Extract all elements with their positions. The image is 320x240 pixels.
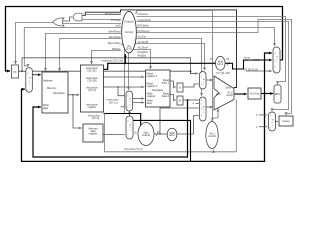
gate G1 OR (to PC write enable) <box>53 18 64 26</box>
svg-text:EPCWrite: EPCWrite <box>138 23 150 27</box>
wire ALUSrcA mux output to ALU <box>206 79 213 81</box>
svg-text:Outputs: Outputs <box>124 20 134 24</box>
register PC <box>12 65 19 78</box>
wire Instruction[20-16] branch to RegDst mux input 0 <box>118 87 125 96</box>
wire cause mux output to Cause register <box>276 121 278 123</box>
svg-text:[15–11]: [15–11] <box>109 100 118 104</box>
svg-text:register 2: register 2 <box>147 84 158 88</box>
svg-text:ALUOp: ALUOp <box>138 34 147 38</box>
svg-text:A: A <box>179 86 181 90</box>
node ALUOut loop junction <box>264 93 266 95</box>
wire Instruction[20-16] to read register 2 <box>104 86 145 88</box>
svg-text:IntCause: IntCause <box>138 12 149 16</box>
svg-text:Memory: Memory <box>47 86 57 90</box>
node sign extend output junction <box>159 133 161 135</box>
wire MemtoReg control down to mux <box>121 45 130 116</box>
svg-text:RegWrite: RegWrite <box>138 50 149 54</box>
wire MemWrite down to memory <box>60 39 122 72</box>
svg-text:control: control <box>208 134 216 138</box>
wire Instruction[15-11] to RegDst mux input 1 <box>121 106 125 108</box>
wire AND output to OR input <box>63 17 73 21</box>
svg-text:C0 00 00 00: C0 00 00 00 <box>244 67 259 71</box>
wire ALU control output to ALU <box>212 109 218 122</box>
svg-text:MemRead: MemRead <box>109 30 122 34</box>
wire PC mux output <box>280 59 282 61</box>
wire constant 4 stub to ALUSrcB input 1 <box>196 103 199 105</box>
register EPC <box>274 85 281 103</box>
svg-text:x: x <box>129 104 130 106</box>
wire CauseWrite wrap right to Cause register <box>136 20 292 116</box>
svg-text:Instruction [31–26]: Instruction [31–26] <box>102 58 124 62</box>
mux PCSource (4 way) <box>273 47 280 73</box>
svg-text:RegDst: RegDst <box>138 54 147 58</box>
register file Registers <box>146 70 171 107</box>
svg-text:MemData: MemData <box>53 91 65 95</box>
wire PCWriteCond to AND gate area <box>85 14 121 16</box>
svg-text:ALUSrcB: ALUSrcB <box>138 40 149 44</box>
wire PC node into ALUSrcA mux input 0 <box>191 71 198 73</box>
wire shift left 2 output to ALUSrcB input 3 <box>177 116 199 134</box>
svg-text:register: register <box>147 94 156 98</box>
ALU control unit <box>206 122 218 149</box>
wire ALUSrcA control down to mux <box>135 44 204 71</box>
svg-text:[15–0]: [15–0] <box>92 116 99 120</box>
wire memory data down to memory data register <box>73 95 82 128</box>
svg-text:x: x <box>276 62 277 64</box>
svg-text:B: B <box>179 99 181 103</box>
svg-text:Address: Address <box>43 78 53 82</box>
svg-text:x: x <box>272 125 273 127</box>
svg-text:IRWrite: IRWrite <box>112 47 121 51</box>
wire ALU result to ALUOut register <box>234 93 247 95</box>
register ALUOut <box>248 88 261 99</box>
svg-text:MemtoReg: MemtoReg <box>108 41 121 45</box>
mux MemtoReg (write data select) <box>126 116 133 139</box>
wire B register output to ALUSrcB mux input 0 <box>183 99 199 101</box>
wire Instruction[5-0] stub into ALU control <box>213 150 215 152</box>
wire IRWrite down to instruction register <box>92 51 122 65</box>
svg-text:Registers: Registers <box>152 88 164 92</box>
svg-text:CauseWrite: CauseWrite <box>138 18 152 22</box>
svg-text:u: u <box>29 80 30 82</box>
svg-text:PCWriteCond: PCWriteCond <box>105 12 121 16</box>
svg-text:[5–0]: [5–0] <box>126 47 132 51</box>
svg-text:Control: Control <box>125 30 134 34</box>
wire cause mux input 1 stub <box>259 126 267 128</box>
wire ALUOut loop down around bottom to IorD mux input 1 <box>22 89 265 161</box>
wire PC output to IorD mux input 0 and across to ALUSrcA junction <box>19 70 191 72</box>
wire ALUOut output to EPC (and loop junction) <box>261 93 273 95</box>
wire read data 1 to A register <box>170 81 176 87</box>
svg-text:extend: extend <box>142 133 150 137</box>
wire EPCWrite wrap right to EPC register <box>137 17 286 85</box>
svg-text:PC: PC <box>13 70 17 74</box>
register Cause <box>279 116 293 126</box>
wire MDR output to MemtoReg mux input 1 <box>103 134 125 136</box>
svg-text:register: register <box>88 105 97 109</box>
svg-text:Zero: Zero <box>226 85 232 89</box>
svg-text:MemWrite: MemWrite <box>109 35 121 39</box>
mux IorD (memory address select) <box>26 68 33 93</box>
svg-text:PC [31–28]: PC [31–28] <box>217 71 230 75</box>
svg-text:PCWrite: PCWrite <box>111 18 121 22</box>
wire PCWrite to AND gate input <box>83 19 122 21</box>
wire cause mux input 0 stub <box>259 114 267 116</box>
wire sign extend branch up to ALUSrcB input 2 <box>160 108 199 134</box>
wire jump shift output and PC[31-28] join to mux input <box>225 60 271 69</box>
node PC output junction <box>21 70 23 72</box>
wire B register loop down and around to memory write data <box>33 100 188 157</box>
node memory data junction <box>72 94 74 96</box>
wire RegDst mux output to write register <box>133 98 145 100</box>
node instruction 20-16 junction <box>117 86 119 88</box>
svg-text:Instruction [5–0]: Instruction [5–0] <box>124 147 143 151</box>
svg-text:register 1: register 1 <box>147 74 158 78</box>
svg-text:PCSource: PCSource <box>138 29 150 33</box>
svg-text:x: x <box>129 130 130 132</box>
wire IntCause wrap right side to cause mux select <box>136 22 288 112</box>
memory unit <box>42 72 68 113</box>
wire MemData output to instruction register <box>68 94 79 96</box>
pin bus width tick 26 <box>212 62 214 66</box>
wire IorD control down to mux <box>24 28 121 67</box>
gate G2 AND (PCWriteCond and Zero) <box>73 13 82 21</box>
register A <box>177 83 183 92</box>
svg-text:EPC: EPC <box>275 92 280 96</box>
shift left 2 unit (jump address) <box>216 56 226 70</box>
shift left 2 unit (branch offset) <box>167 128 177 140</box>
wire MemtoReg mux input 0 from ALUOut loop <box>133 120 190 161</box>
wire ALUSrcB mux output to ALU <box>206 106 213 108</box>
wire Instruction[25-0] jump bus to shift left 2 <box>104 63 216 69</box>
wire ALU result up to PC mux input 0 <box>265 53 272 94</box>
register MDR memory data register <box>83 124 103 142</box>
pin bus width tick 28 <box>227 62 229 66</box>
wire read data 2 to B register <box>170 95 176 101</box>
svg-text:[25–21]: [25–21] <box>88 68 97 72</box>
wire A register output to ALUSrcA mux input 1 <box>183 84 199 87</box>
wire Instruction[5-0] along bottom to ALU control area <box>105 100 237 152</box>
ALU <box>214 76 234 110</box>
svg-text:data: data <box>43 106 49 110</box>
mux RegDst (write register select) <box>126 91 133 111</box>
svg-text:x: x <box>203 112 204 114</box>
svg-text:Cause: Cause <box>282 119 290 123</box>
wire sign extend output to shift left 2 <box>154 133 167 135</box>
wire PC output up and across (upper PC run) <box>22 58 191 71</box>
svg-text:x: x <box>29 83 30 85</box>
svg-text:address [31-0]: address [31-0] <box>244 58 261 62</box>
wire OR output down to PC write enable <box>16 23 54 65</box>
wire PC input bus loop (mux output around top to PC) <box>6 7 283 72</box>
register IR instruction register <box>81 65 104 112</box>
svg-text:[15–0]: [15–0] <box>88 88 95 92</box>
svg-text:data 2: data 2 <box>162 94 170 98</box>
svg-text:left 2: left 2 <box>169 133 175 137</box>
svg-text:IorD: IorD <box>116 24 121 28</box>
node B output junction <box>187 99 189 101</box>
wire Instruction[25-21] to read register 1 <box>104 76 145 78</box>
control unit oval <box>122 11 137 53</box>
svg-text:ALUSrcA: ALUSrcA <box>138 45 149 49</box>
svg-text:register: register <box>89 132 98 136</box>
wire Instruction[15-0] down to sign extend <box>104 114 141 127</box>
wire Zero from ALU up and left to AND gate <box>83 10 237 88</box>
svg-text:ALUOut: ALUOut <box>250 92 260 96</box>
register B <box>177 96 183 105</box>
wire RegWrite control down to registers <box>134 50 151 70</box>
svg-text:left 2: left 2 <box>217 62 223 66</box>
sign extend unit <box>138 123 154 146</box>
mux cause select (0 undefined / 1 overflow) <box>269 112 276 131</box>
mux ALUSrcB (4 way) <box>200 97 207 121</box>
wire RegDst control down to mux <box>128 53 130 91</box>
wire PCWrite to OR gate input <box>63 23 122 25</box>
node Op tap junction <box>124 62 126 64</box>
mux ALUSrcA <box>200 72 207 90</box>
wire ALUOp control down to ALU control <box>135 11 213 121</box>
svg-text:result: result <box>226 93 233 97</box>
wire IorD mux output to memory address <box>32 74 41 76</box>
node instruction 15-0 junction <box>104 113 106 115</box>
wire MemRead down to memory <box>46 34 122 72</box>
svg-text:data: data <box>147 101 153 105</box>
svg-text:data 1: data 1 <box>162 81 170 85</box>
wire PCSource control down to PC mux <box>136 28 274 47</box>
svg-text:ALU: ALU <box>216 92 221 96</box>
wire MemtoReg mux output up to write data port <box>130 103 145 117</box>
svg-text:x: x <box>203 84 204 86</box>
svg-text:[20–16]: [20–16] <box>88 78 97 82</box>
wire ALUSrcB control down to mux <box>136 39 202 97</box>
pin bus width tick 32 <box>156 133 158 136</box>
wire Instruction[31-26] up to control (Op) <box>124 54 126 63</box>
wire exception vector constant to PC mux <box>246 70 272 72</box>
node PC to ALUSrcA junction <box>190 70 192 72</box>
